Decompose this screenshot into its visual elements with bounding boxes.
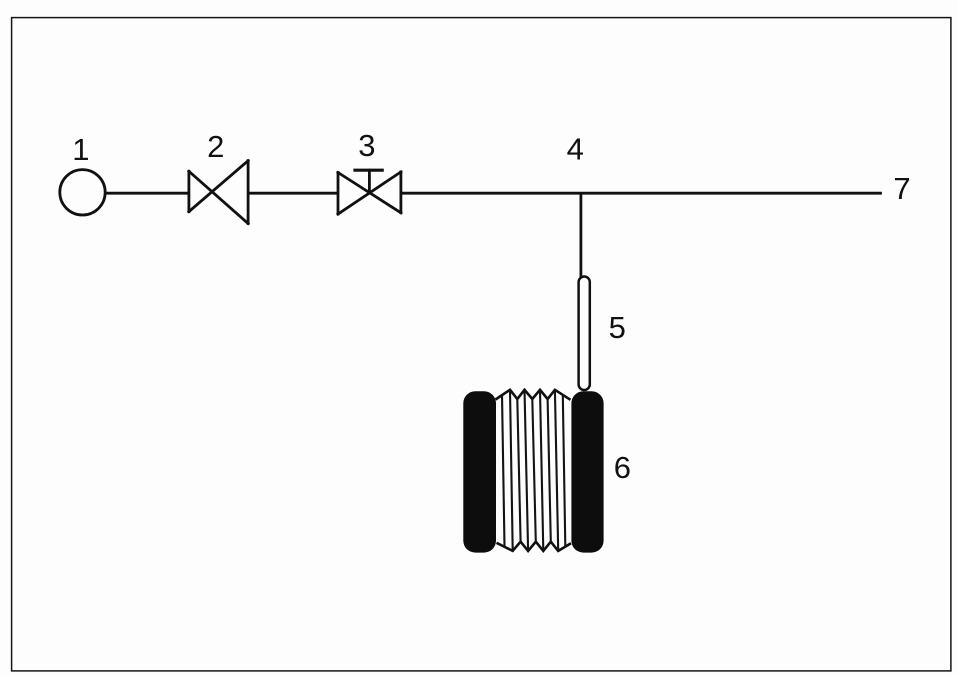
component 1 (sensor bulb) [60, 170, 105, 215]
svg-text:5: 5 [609, 310, 626, 345]
wire from 1 to valve 2 [104, 192, 190, 195]
bellows 6 right end cap [571, 391, 603, 552]
svg-text:3: 3 [358, 128, 375, 163]
svg-text:1: 1 [72, 132, 89, 167]
svg-text:4: 4 [567, 132, 584, 167]
wire from valve 2 to valve 3 [248, 192, 338, 195]
bellows 6 bottom zigzag edge [497, 542, 572, 551]
wire from valve 3 to outlet 7 [401, 192, 882, 195]
node 4 junction wire (drop from main line) [580, 193, 583, 277]
svg-text:6: 6 [614, 450, 631, 485]
bellows 6 left end cap [463, 391, 496, 552]
valve 2 [189, 161, 248, 224]
valve 3 (with stem handle) [338, 170, 401, 214]
bellows 6 pleat lines [502, 390, 565, 551]
capillary tube 5 [579, 277, 590, 391]
bellows 6 top zigzag edge [496, 390, 571, 400]
svg-text:7: 7 [893, 171, 910, 206]
svg-text:2: 2 [207, 129, 224, 164]
